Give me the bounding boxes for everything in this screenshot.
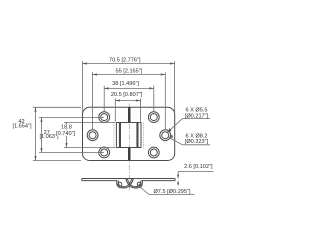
hinge body (top view outline)	[83, 107, 175, 160]
barrel hidden line left (dashed)	[113, 123, 115, 148]
dim 20.5 line	[115, 99, 140, 101]
side view leaf plate	[82, 179, 175, 181]
barrel wall right	[136, 123, 138, 148]
dim 18.8 label	[56, 124, 77, 137]
dim 27 line	[40, 117, 42, 152]
hole mid-right	[160, 130, 171, 141]
svg-text:70.5 [2.776"]: 70.5 [2.776"]	[109, 57, 141, 63]
dim 18.8 line	[65, 123, 67, 148]
label 6 X Ø5.5	[185, 108, 209, 120]
svg-text:2.6 [0.102"]: 2.6 [0.102"]	[184, 164, 213, 170]
leaf joint line lower	[128, 148, 131, 161]
dim 27 extension lines	[39, 117, 104, 152]
svg-text:20.5 [0.807"]: 20.5 [0.807"]	[111, 92, 143, 98]
dim 18.8 extension lines	[64, 123, 115, 148]
dim 38 line	[104, 87, 154, 89]
svg-text:[0.740"]: [0.740"]	[56, 131, 76, 137]
leader for 6 X Ø5.5	[168, 119, 210, 133]
dim 38 label	[112, 81, 139, 87]
barrel wall left	[119, 123, 121, 148]
dim 55 label	[115, 68, 142, 74]
svg-text:38 [1.496"]: 38 [1.496"]	[112, 81, 139, 87]
dim 20.5 label	[111, 92, 143, 98]
dim 42 line	[34, 107, 36, 160]
knuckle barrel outline	[116, 123, 141, 148]
leader for 6 X Ø8.2	[169, 135, 210, 145]
label 6 X Ø8.2	[185, 134, 209, 146]
dim 38 extension lines	[104, 86, 154, 112]
dim 70.5 line	[83, 62, 175, 64]
leader Ø7.5	[138, 183, 195, 195]
dim 55 line	[93, 73, 166, 75]
svg-text:18.8: 18.8	[61, 125, 72, 131]
side view curl inner ring right	[137, 182, 141, 186]
side view knuckle curl left plate wrap	[117, 179, 134, 188]
barrel hidden line right (dashed)	[143, 123, 145, 148]
dim 42 extension lines	[33, 107, 81, 160]
dim 2.6 leader	[177, 172, 214, 186]
svg-text:[Ø0.217"]: [Ø0.217"]	[185, 113, 209, 119]
hole mid-left	[87, 130, 98, 141]
centerline (vertical axis through hinge pin)	[128, 104, 130, 193]
hole bottom-right	[148, 147, 159, 158]
dim 70.5 label	[109, 57, 141, 63]
svg-text:Ø7.5 [Ø0.295"]: Ø7.5 [Ø0.295"]	[153, 189, 191, 195]
hole top-right	[148, 112, 159, 123]
label Ø7.5	[153, 189, 191, 195]
dim 27 label	[39, 130, 59, 140]
svg-text:[1.654"]: [1.654"]	[12, 124, 32, 130]
dim 2.6 label	[184, 164, 213, 170]
hole bottom-left	[99, 147, 110, 158]
side view curl inner ring left	[118, 182, 122, 186]
dim 70.5 extension lines	[83, 61, 175, 113]
dim 20.5 extension lines	[115, 98, 140, 121]
svg-text:[Ø0.323"]: [Ø0.323"]	[185, 139, 209, 145]
svg-text:55 [2.165"]: 55 [2.165"]	[115, 68, 142, 74]
dim 42 label	[12, 119, 32, 129]
leaf joint line upper	[128, 107, 131, 122]
hole top-left (counterbore)	[99, 112, 110, 123]
dim 55 extension lines	[93, 72, 166, 130]
side view knuckle curl right plate wrap	[126, 179, 143, 188]
